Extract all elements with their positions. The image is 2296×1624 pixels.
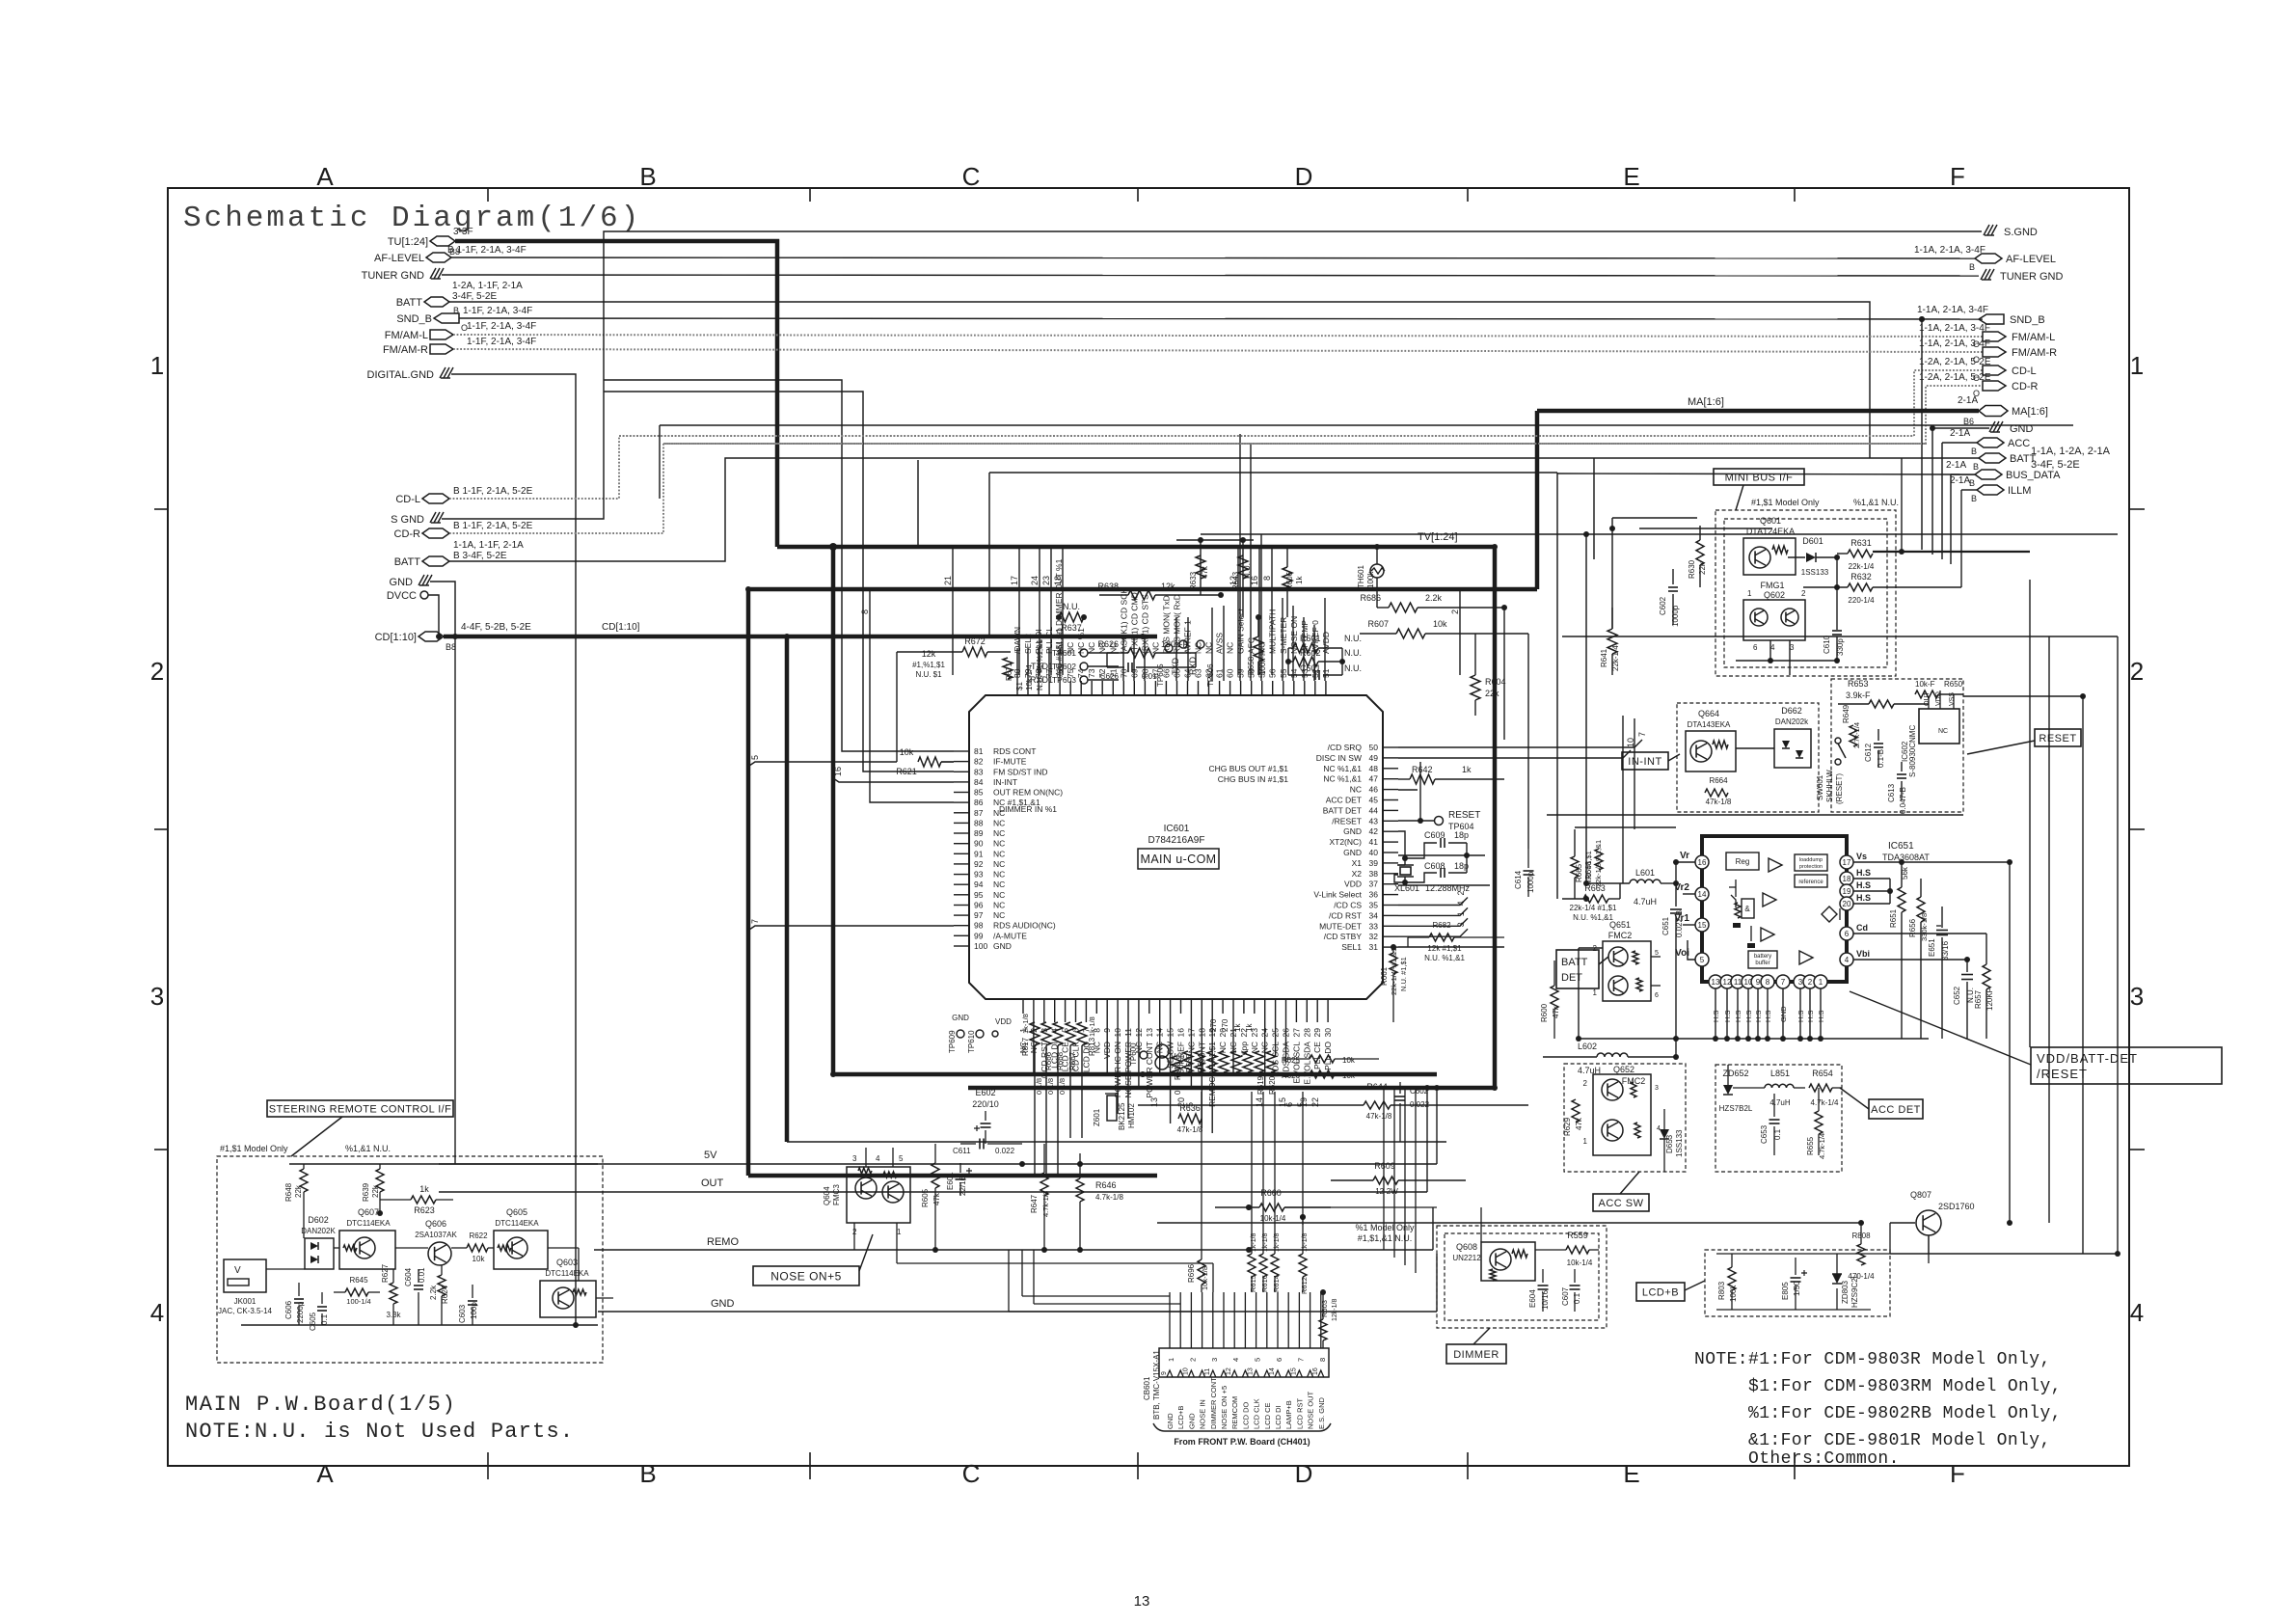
wire S-METER row <box>839 434 1914 436</box>
wire AF-LEVEL <box>451 257 1975 258</box>
svg-text:NC: NC <box>1150 642 1160 654</box>
svg-text:R654: R654 <box>1812 1069 1833 1078</box>
svg-text:ACC: ACC <box>2008 438 2030 449</box>
svg-text:FM/AM-L: FM/AM-L <box>2012 332 2055 343</box>
svg-text:F: F <box>1950 1459 1965 1488</box>
svg-text:47k-1/8: 47k-1/8 <box>1366 1112 1392 1121</box>
svg-text:SND_B: SND_B <box>2010 314 2045 326</box>
bus pin callout 8 left <box>870 589 954 802</box>
svg-text:NOTE:#1:For CDM-9803R Model On: NOTE:#1:For CDM-9803R Model Only, <box>1694 1350 2051 1369</box>
svg-text:GND: GND <box>390 577 414 588</box>
svg-text:C653: C653 <box>1760 1124 1769 1144</box>
svg-text:#1,%1,$1: #1,%1,$1 <box>912 661 945 669</box>
wire DVCC <box>428 595 439 636</box>
svg-text:R632: R632 <box>1850 572 1872 582</box>
bus TV[1:24] thick horizontal <box>777 545 1495 550</box>
svg-text:2200p: 2200p <box>296 1301 305 1323</box>
IC651 pin circles right <box>1840 855 1853 869</box>
svg-text:AF-LEVEL: AF-LEVEL <box>2006 254 2056 265</box>
svg-text:10k: 10k <box>1342 1056 1356 1065</box>
capacitor C602 0.022 <box>1399 1082 1401 1094</box>
svg-text:2.7k-1/4: 2.7k-1/4 <box>1852 722 1861 748</box>
svg-text:0-1/8: 0-1/8 <box>1035 1078 1043 1095</box>
wire CD-R gray <box>449 386 1983 533</box>
svg-text:1: 1 <box>1583 1137 1588 1146</box>
svg-text:DIGITAL.GND: DIGITAL.GND <box>367 369 435 381</box>
svg-text:REMO: REMO <box>707 1236 739 1248</box>
svg-text:3: 3 <box>2130 982 2144 1011</box>
svg-text:IF-MUTE: IF-MUTE <box>993 757 1027 767</box>
bus CD thick wire <box>444 635 1157 639</box>
capacitor C652 N.U. <box>1966 960 1968 972</box>
svg-text:4: 4 <box>1770 643 1775 652</box>
svg-text:R641: R641 <box>1600 648 1608 667</box>
wires pin50 49 risers <box>1634 589 1635 718</box>
svg-text:R655: R655 <box>1806 1136 1815 1155</box>
svg-text:TH601: TH601 <box>1357 564 1365 588</box>
svg-text:GND: GND <box>1343 848 1362 857</box>
svg-text:D602: D602 <box>308 1215 329 1225</box>
svg-text:TUNER GND: TUNER GND <box>362 270 424 282</box>
svg-text:10k-1/4: 10k-1/4 <box>1567 1259 1593 1267</box>
svg-text:C607: C607 <box>1561 1286 1570 1306</box>
svg-text:1/50: 1/50 <box>1793 1281 1801 1296</box>
svg-text:6: 6 <box>1275 1358 1283 1362</box>
svg-text:0: 0 <box>1174 1090 1182 1095</box>
svg-text:10: 10 <box>1182 1367 1189 1375</box>
junction dots 2 <box>1434 1085 1440 1091</box>
svg-text:R602: R602 <box>1300 648 1321 658</box>
svg-text:R635: R635 <box>1185 1053 1194 1072</box>
svg-text:R665: R665 <box>1575 863 1583 882</box>
connector AF-LEVEL right <box>1975 254 2002 263</box>
svg-text:2-1A: 2-1A <box>1958 395 1978 406</box>
wire riser x952 <box>917 460 919 547</box>
svg-text:R657: R657 <box>1974 989 1983 1009</box>
IC651 internal reg box <box>1726 853 1759 870</box>
svg-text:1k-1/8: 1k-1/8 <box>1021 1014 1030 1034</box>
wire left gnd drop x472 <box>454 636 456 1164</box>
resistor R696 10k-1/8 vertical <box>1198 1259 1205 1285</box>
svg-text:2: 2 <box>2130 657 2144 686</box>
svg-text:MA[1:6]: MA[1:6] <box>1688 396 1724 408</box>
svg-text:220-1/4: 220-1/4 <box>1848 596 1875 605</box>
svg-text:L851: L851 <box>1770 1069 1790 1078</box>
svg-text:R647: R647 <box>1030 1194 1039 1213</box>
svg-text:Q664: Q664 <box>1698 709 1719 718</box>
resistor R642 1k <box>1398 778 1410 780</box>
svg-text:FMG1: FMG1 <box>1760 581 1784 590</box>
svg-text:R629: R629 <box>1563 1117 1572 1136</box>
svg-text:NOSE ON+5: NOSE ON+5 <box>770 1269 842 1283</box>
wires lower-left long horizontals <box>436 636 455 637</box>
svg-text:1k: 1k <box>1233 1023 1242 1032</box>
wire riser x1026 <box>988 473 990 636</box>
svg-text:NOSE IN: NOSE IN <box>1199 1399 1207 1429</box>
svg-text:9: 9 <box>1161 1371 1168 1375</box>
wires IC601 left pin leads <box>604 380 954 751</box>
resistor R604 22k vertical <box>1471 675 1480 700</box>
svg-text:R616: R616 <box>1260 1275 1269 1292</box>
wire ILLM <box>1961 489 1977 491</box>
svg-text:CD-R: CD-R <box>2012 381 2039 392</box>
wire SND_B drop <box>1921 319 1923 550</box>
capacitor E604 10/16 <box>1542 1269 1544 1283</box>
svg-text:NC: NC <box>1087 642 1096 654</box>
svg-text:VDD: VDD <box>995 1017 1012 1026</box>
wires dimmer feed <box>1330 1180 1332 1207</box>
dashed box STEERING <box>217 1156 603 1363</box>
svg-text:11: 11 <box>1204 1368 1211 1375</box>
label MINI BUS I/F <box>1714 469 1804 485</box>
wire FM/AM-L gray <box>453 335 1983 337</box>
svg-text:N.U.: N.U. <box>1344 648 1362 658</box>
wires gray mid horizontals <box>619 435 1914 437</box>
label NOSE ON+5 <box>753 1266 859 1286</box>
svg-text:31: 31 <box>1369 942 1379 952</box>
svg-text:47k: 47k <box>1575 1117 1583 1130</box>
svg-text:#1,$1,&1 N.U.: #1,$1,&1 N.U. <box>1358 1233 1413 1243</box>
connector BUS_DATA right <box>1975 470 2002 479</box>
svg-text:22k: 22k <box>1485 689 1499 698</box>
svg-text:47k-1/8: 47k-1/8 <box>1706 798 1732 806</box>
svg-text:22k-1/4: 22k-1/4 <box>1849 562 1875 571</box>
svg-text:CHG BUS IN #1,$1: CHG BUS IN #1,$1 <box>1218 774 1288 784</box>
svg-text:4: 4 <box>150 1298 164 1327</box>
svg-text:5: 5 <box>750 755 760 760</box>
capacitor C609 18p <box>1405 843 1437 858</box>
svg-text:R634: R634 <box>1197 1053 1205 1072</box>
svg-text:17: 17 <box>1843 858 1851 867</box>
dashed box Q652 <box>1564 1064 1686 1172</box>
svg-text:270: 270 <box>1221 1018 1229 1032</box>
IC651 pin circles bottom <box>1709 975 1722 988</box>
svg-text:battery: battery <box>1754 954 1771 960</box>
svg-text:B: B <box>639 1459 656 1488</box>
svg-text:C611: C611 <box>953 1147 971 1155</box>
svg-text:R604: R604 <box>1485 677 1506 687</box>
svg-text:C651: C651 <box>1661 916 1670 935</box>
wires various mid-length <box>805 547 807 636</box>
svg-text:90: 90 <box>974 839 984 849</box>
svg-text:Vpp: Vpp <box>1171 1052 1185 1061</box>
svg-text:FM/AM-R: FM/AM-R <box>2012 347 2057 359</box>
connector TUNER GND right <box>1981 269 1986 280</box>
svg-text:4: 4 <box>876 1154 880 1163</box>
resistor R647 4.7k-1/8 vertical <box>1040 1173 1048 1196</box>
svg-text:C: C <box>962 1459 981 1488</box>
svg-text:GND: GND <box>1187 1413 1196 1429</box>
svg-text:/CD CS: /CD CS <box>1334 901 1362 910</box>
svg-text:0.022: 0.022 <box>995 1147 1015 1155</box>
svg-text:1: 1 <box>1456 911 1466 916</box>
svg-text:47k: 47k <box>1201 565 1209 579</box>
capacitor C611 0.022 <box>960 1143 976 1145</box>
wire minibus bottom rail <box>1736 660 1837 662</box>
label STEERING REMOTE CONTROL I/F <box>267 1100 453 1117</box>
svg-text:R609: R609 <box>1374 1161 1395 1171</box>
svg-text:3: 3 <box>1655 1085 1659 1092</box>
wire SEL1 pin31 <box>1398 946 1504 948</box>
svg-text:SW601: SW601 <box>1816 774 1824 800</box>
svg-text:1-1A, 1-2A, 2-1A: 1-1A, 1-2A, 2-1A <box>2031 446 2111 457</box>
svg-text:LCD DO: LCD DO <box>1241 1401 1250 1429</box>
svg-text:DTA143EKA: DTA143EKA <box>1688 720 1731 729</box>
svg-text:R803: R803 <box>1717 1281 1726 1300</box>
svg-text:1: 1 <box>1819 978 1823 987</box>
svg-text:R637: R637 <box>1061 623 1082 633</box>
svg-text:4: 4 <box>1657 1125 1661 1132</box>
svg-text:4.7uH: 4.7uH <box>1634 897 1657 907</box>
svg-text:TP606: TP606 <box>1206 663 1215 687</box>
svg-text:85: 85 <box>974 788 984 798</box>
svg-text:30: 30 <box>1323 1028 1333 1038</box>
svg-text:B 1-1F, 2-1A, 5-2E: B 1-1F, 2-1A, 5-2E <box>453 486 533 497</box>
svg-text:R648: R648 <box>284 1182 293 1202</box>
svg-text:86: 86 <box>974 798 984 807</box>
svg-text:VDD: VDD <box>1935 691 1942 706</box>
svg-text:/RESET: /RESET <box>1332 816 1362 826</box>
svg-text:84: 84 <box>974 777 984 787</box>
svg-text:47k-1/8: 47k-1/8 <box>1177 1125 1203 1134</box>
svg-text:S-METER: S-METER <box>1279 617 1288 654</box>
svg-text:BK2125: BK2125 <box>1118 1102 1126 1130</box>
svg-text:1: 1 <box>2130 351 2144 380</box>
svg-text:ACC DET: ACC DET <box>1326 796 1362 805</box>
svg-text:SKHHLW: SKHHLW <box>1825 770 1834 802</box>
svg-text:10k: 10k <box>1342 1071 1356 1080</box>
wires Q604 pins <box>853 1223 855 1250</box>
wire y490 left segment <box>989 472 1557 474</box>
svg-text:83: 83 <box>974 767 984 776</box>
svg-text:R614: R614 <box>1272 1275 1281 1292</box>
svg-text:R646: R646 <box>1095 1180 1117 1190</box>
svg-text:73: 73 <box>1087 668 1096 678</box>
svg-text:1-1F, 2-1A, 3-4F: 1-1F, 2-1A, 3-4F <box>463 306 532 316</box>
svg-text:H.S: H.S <box>1856 893 1871 903</box>
capacitor C605 0.1 <box>321 1292 323 1304</box>
resistor R655 4.7k-1/4 vertical <box>1815 1111 1823 1134</box>
svg-text:Q605: Q605 <box>506 1207 527 1217</box>
svg-text:1-1A, 2-1A, 3-4F: 1-1A, 2-1A, 3-4F <box>1914 245 1985 256</box>
svg-text:MULTIPATH: MULTIPATH <box>1268 609 1278 654</box>
svg-text:82: 82 <box>974 757 984 767</box>
svg-text:54: 54 <box>1289 668 1299 678</box>
resistors R615 R616 R614 1k-1/8 <box>1248 1254 1256 1277</box>
svg-text:10k: 10k <box>1433 619 1447 629</box>
svg-text:$1: $1 <box>1015 682 1024 690</box>
resistor R663 22k-1/4 <box>1583 895 1608 903</box>
svg-text:X2: X2 <box>1352 869 1363 879</box>
dashed box MINI BUS inner <box>1724 519 1887 667</box>
svg-text:40: 40 <box>1369 848 1379 857</box>
svg-text:ZD652: ZD652 <box>1722 1069 1748 1078</box>
svg-text:NOTE:N.U. is Not Used Parts.: NOTE:N.U. is Not Used Parts. <box>185 1420 574 1444</box>
svg-text:95: 95 <box>974 890 984 900</box>
svg-text:R607: R607 <box>1367 619 1389 629</box>
IC651 loaddump box <box>1795 854 1827 871</box>
capacitor E805 1/50 <box>1795 1258 1796 1275</box>
label ACC SW <box>1593 1194 1649 1211</box>
connector CB601 body <box>1159 1348 1329 1377</box>
svg-text:18p: 18p <box>1454 861 1469 871</box>
diode D653 1SS133 <box>1660 1129 1669 1139</box>
svg-text:28: 28 <box>1302 1028 1311 1038</box>
svg-text:D: D <box>1295 162 1313 191</box>
resistor R632 220-1/4 <box>1848 583 1873 591</box>
svg-text:DISC IN SW: DISC IN SW <box>1316 753 1362 763</box>
svg-text:FM SD/ST IND: FM SD/ST IND <box>993 767 1048 776</box>
svg-text:R627: R627 <box>381 1263 390 1283</box>
svg-text:6: 6 <box>1753 643 1758 652</box>
capacitor E601 22/16 <box>959 1163 961 1173</box>
bus H3 thick horizontal <box>748 587 1537 592</box>
svg-text:%1,&1 N.U.: %1,&1 N.U. <box>1853 498 1899 507</box>
capacitor C651 0.022-B <box>1675 883 1677 907</box>
svg-text:R600: R600 <box>1540 1003 1549 1022</box>
svg-text:41: 41 <box>1369 837 1379 847</box>
connector BATT right <box>1979 453 2006 463</box>
svg-text:R623: R623 <box>414 1205 435 1215</box>
svg-text:NC: NC <box>993 839 1005 849</box>
svg-text:20: 20 <box>1843 900 1851 908</box>
wire BUS_DATA long feed <box>1557 474 1975 474</box>
svg-text:#1,$1 Model Only: #1,$1 Model Only <box>1751 498 1820 507</box>
svg-text:15: 15 <box>1698 921 1707 930</box>
dashed box MINI BUS outer <box>1715 510 1896 676</box>
svg-text:9: 9 <box>1756 978 1761 987</box>
svg-text:1-2A, 2-1A, 5-2E: 1-2A, 2-1A, 5-2E <box>1919 357 1991 367</box>
svg-text:22k: 22k <box>294 1184 303 1198</box>
svg-text:Q607: Q607 <box>358 1207 379 1217</box>
svg-text:JK001: JK001 <box>234 1297 257 1306</box>
svg-text:12k: 12k <box>1161 582 1175 591</box>
wires IC651 vr feeds <box>1585 534 1587 883</box>
svg-text:5: 5 <box>1254 1358 1262 1362</box>
svg-text:R639: R639 <box>362 1182 370 1202</box>
svg-text:OUT: OUT <box>701 1177 724 1189</box>
svg-text:1-2A, 2-1A, 5-2E: 1-2A, 2-1A, 5-2E <box>1919 372 1991 383</box>
test point TP600 <box>1140 1051 1148 1059</box>
resistor R671 vertical <box>1003 658 1013 679</box>
svg-text:92: 92 <box>974 859 984 869</box>
resistor R621 10k <box>918 757 941 767</box>
svg-text:NC: NC <box>993 890 1005 900</box>
svg-text:E805: E805 <box>1781 1282 1790 1300</box>
svg-text:49: 49 <box>1369 753 1379 763</box>
capacitor C607 0.1 <box>1574 1269 1576 1283</box>
svg-text:NC: NC <box>1938 728 1948 735</box>
svg-text:1-1F, 2-1A, 3-4F: 1-1F, 2-1A, 3-4F <box>467 321 536 332</box>
svg-text:46: 46 <box>1369 785 1379 795</box>
svg-text:%1,&1 N.U.: %1,&1 N.U. <box>345 1144 391 1153</box>
svg-text:/CD RST: /CD RST <box>1329 910 1362 920</box>
svg-text:Vs: Vs <box>1856 852 1867 861</box>
svg-text:&1:For CDE-9801R Model Only,: &1:For CDE-9801R Model Only, <box>1748 1431 2051 1450</box>
svg-text:R650: R650 <box>1944 680 1963 689</box>
svg-text:3: 3 <box>1456 922 1466 927</box>
svg-text:DTC114EKA: DTC114EKA <box>346 1219 391 1228</box>
svg-text:Q608: Q608 <box>1456 1242 1477 1252</box>
wire BATT2 <box>449 458 1979 561</box>
svg-text:4.7k-1/8: 4.7k-1/8 <box>1041 1191 1050 1217</box>
svg-text:TP600: TP600 <box>1129 1042 1138 1066</box>
svg-text:C626: C626 <box>1100 672 1120 681</box>
resistor R633 47k vertical <box>1200 540 1202 595</box>
svg-text:60: 60 <box>1226 668 1235 678</box>
svg-text:A: A <box>316 162 334 191</box>
connector MA[1:6] right <box>1979 406 2008 417</box>
wire BATT <box>449 302 1870 458</box>
svg-text:89: 89 <box>974 828 984 838</box>
svg-text:NC: NC <box>993 870 1005 880</box>
wires CD control bus risers <box>1467 591 1469 897</box>
svg-text:X1: X1 <box>1352 858 1363 868</box>
svg-text:0-1/8: 0-1/8 <box>1058 1078 1067 1095</box>
svg-text:/RESET: /RESET <box>2037 1067 2088 1081</box>
svg-text:12k: 12k <box>922 649 936 659</box>
wires IC601 top pins risers <box>1016 648 1018 681</box>
svg-text:B: B <box>1969 262 1975 272</box>
svg-text:37: 37 <box>1369 880 1379 889</box>
svg-text:DIMMER CONT: DIMMER CONT <box>1209 1377 1218 1429</box>
svg-text:13: 13 <box>1248 1367 1255 1375</box>
resistor R818 0 <box>1172 1056 1181 1077</box>
svg-text:BATT: BATT <box>1561 957 1588 968</box>
svg-text:97: 97 <box>974 910 984 920</box>
svg-text:MAIN P.W.Board(1/5): MAIN P.W.Board(1/5) <box>185 1393 456 1417</box>
IC601 top pins <box>1016 681 1018 695</box>
svg-text:1k: 1k <box>1245 1023 1254 1032</box>
svg-text:55: 55 <box>1279 668 1288 678</box>
svg-text:98: 98 <box>974 921 984 931</box>
svg-text:330p: 330p <box>1836 638 1845 656</box>
svg-text:R638: R638 <box>1097 582 1119 591</box>
wires IC bottom to CB601 joins <box>1021 1250 1023 1296</box>
wire bottom rail connects <box>1098 1142 1100 1176</box>
resistors R651 56k R656 330k <box>1898 887 1905 912</box>
svg-text:ZD803: ZD803 <box>1841 1280 1850 1304</box>
bus H3 left drop thick <box>746 589 751 1176</box>
svg-text:TP609: TP609 <box>948 1030 957 1053</box>
svg-text:NC: NC <box>993 849 1005 858</box>
svg-text:E: E <box>1623 1459 1639 1488</box>
svg-text:AVDD: AVDD <box>1321 632 1331 654</box>
svg-text:2-1A: 2-1A <box>1950 475 1970 486</box>
resistors 270 270 1k 1k labels <box>1207 1051 1217 1072</box>
svg-text:H.S: H.S <box>1856 868 1871 878</box>
svg-text:IC601: IC601 <box>1164 824 1190 834</box>
svg-text:10k: 10k <box>473 1255 486 1263</box>
resistor R605 47k vertical <box>932 1163 939 1188</box>
svg-text:61: 61 <box>1215 668 1225 678</box>
svg-text:1-2A, 1-1F, 2-1A: 1-2A, 1-1F, 2-1A <box>452 281 523 291</box>
connector SND_B right <box>1979 314 2004 324</box>
svg-text:R625: R625 <box>1282 1056 1301 1065</box>
capacitor C610 330p <box>1836 629 1838 631</box>
label VDD/BATT-DET/RESET <box>2031 1047 2222 1084</box>
svg-text:8: 8 <box>1318 1358 1327 1362</box>
svg-text:ACC SW: ACC SW <box>1599 1198 1644 1209</box>
svg-text:33/16: 33/16 <box>1941 940 1950 961</box>
svg-text:GND: GND <box>1343 826 1362 836</box>
crystal XL601 <box>1400 867 1411 875</box>
label IN-INT <box>1622 752 1668 770</box>
svg-text:3: 3 <box>150 982 164 1011</box>
svg-text:0.01: 0.01 <box>1142 672 1157 681</box>
wire REMO to CB601 <box>1243 1250 1245 1292</box>
svg-text:47k: 47k <box>1552 1005 1560 1018</box>
